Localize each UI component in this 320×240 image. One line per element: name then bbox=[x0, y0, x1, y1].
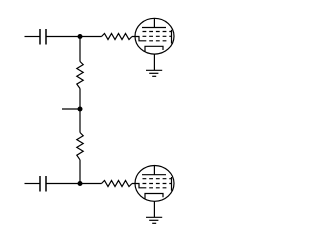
wire C1 to R1 bbox=[46, 36, 102, 38]
V1 plate bbox=[142, 18, 166, 27]
op-amp/tube V1 envelope bbox=[135, 18, 174, 54]
V2 grid row 3 bbox=[143, 187, 167, 189]
wire R3 to node C bbox=[79, 160, 81, 184]
V2 grid row 2 bbox=[143, 183, 172, 185]
V1 grid row 3 bbox=[143, 40, 167, 42]
resistor R3 bbox=[77, 133, 83, 160]
resistor R1 bbox=[102, 34, 133, 40]
wire R4 to V2 grid bbox=[132, 184, 143, 188]
resistor R4 bbox=[102, 181, 133, 187]
resistor R2 bbox=[77, 62, 83, 89]
V1 grid row 2 bbox=[143, 35, 172, 37]
wire input left top bbox=[25, 36, 41, 38]
ground V1 bbox=[146, 70, 162, 76]
capacitor C1 bbox=[40, 29, 46, 45]
op-amp/tube V2 envelope bbox=[135, 166, 174, 202]
wire R1 to V1 grid bbox=[132, 37, 143, 41]
V2 grid row 1 bbox=[143, 178, 172, 180]
V2 internal side connection bbox=[171, 177, 173, 191]
wire input left bottom bbox=[25, 183, 41, 185]
wire node A down bbox=[79, 37, 81, 62]
wire node B down bbox=[79, 109, 81, 133]
wire V1 cathode lead bbox=[153, 54, 155, 70]
V1 grid row 1 bbox=[143, 31, 172, 33]
V1 cathode bbox=[145, 46, 163, 51]
node B junction dot middle bbox=[78, 107, 83, 112]
V2 plate bbox=[142, 166, 166, 175]
wire R2 to node B bbox=[79, 89, 81, 110]
capacitor C2 bbox=[40, 176, 46, 192]
V1 internal side connection bbox=[171, 30, 173, 44]
wire V2 cathode lead bbox=[153, 201, 155, 217]
wire C2 to R4 bbox=[46, 183, 102, 185]
node C junction dot bottom bbox=[78, 181, 83, 186]
V2 cathode bbox=[145, 194, 163, 199]
wire stub node B bbox=[62, 108, 80, 110]
ground V2 bbox=[146, 217, 162, 223]
node A junction dot top bbox=[78, 34, 83, 39]
